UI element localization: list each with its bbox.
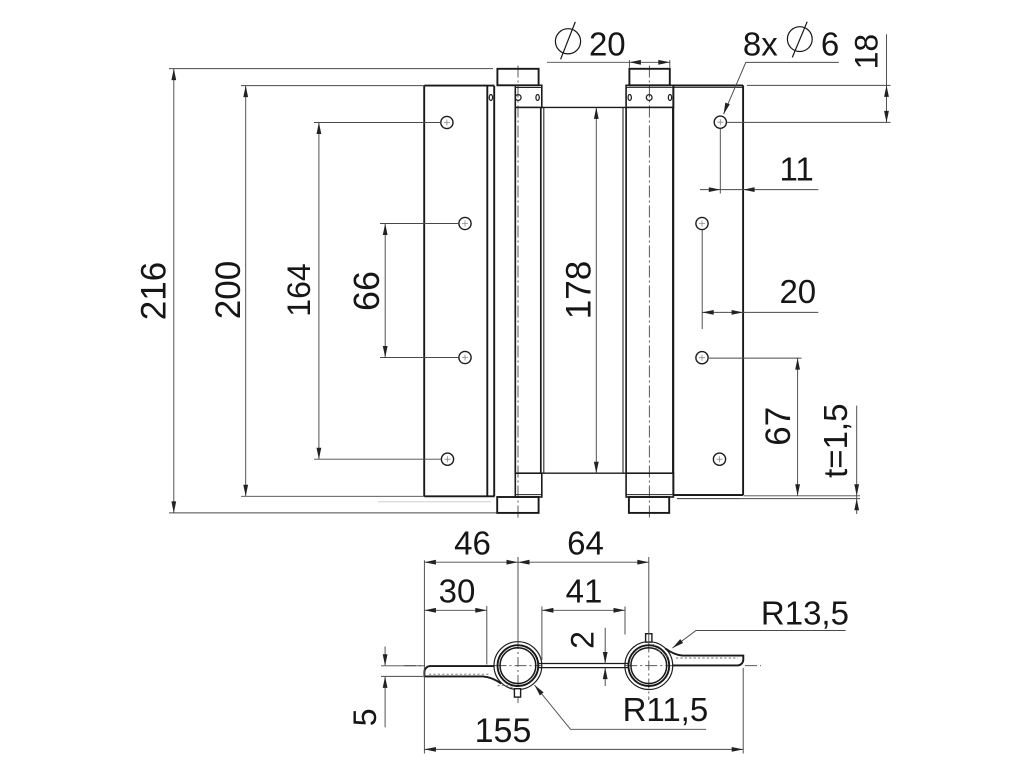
- dim 2 line: [604, 628, 606, 686]
- svg-text:41: 41: [566, 572, 603, 609]
- svg-text:200: 200: [209, 261, 248, 319]
- right band edge holes (ellipses): [628, 95, 631, 101]
- horizontal centerline section: [404, 665, 761, 667]
- dim 30 line: [424, 609, 486, 611]
- svg-text:8x: 8x: [743, 26, 778, 63]
- right barrel top cap: [629, 69, 669, 86]
- right plate hole 1: [714, 116, 726, 128]
- svg-text:18: 18: [849, 34, 885, 70]
- right barrel bottom band: [626, 473, 673, 497]
- dim 200 line: [245, 86, 247, 497]
- right wing serration: [676, 657, 738, 659]
- svg-text:155: 155: [475, 712, 532, 750]
- leaf strip hole (ellipse): [489, 95, 492, 101]
- label dia 20: [555, 22, 580, 59]
- extension right tube axis: [648, 557, 650, 643]
- leader R13,5: [673, 631, 846, 649]
- vertical centerline left tube: [517, 639, 519, 704]
- left plate hole 4: [441, 453, 453, 465]
- svg-text:46: 46: [454, 525, 491, 562]
- right barrel top band: [626, 85, 673, 107]
- right leaf plate: [673, 85, 743, 495]
- svg-text:64: 64: [567, 525, 604, 562]
- left clamp ring: [494, 642, 542, 690]
- left barrel body: [515, 107, 541, 473]
- centerline left barrel axis: [517, 66, 519, 519]
- dim 178 line: [595, 107, 597, 473]
- svg-text:66: 66: [346, 271, 387, 311]
- arrowheads front view: [171, 69, 176, 81]
- left band edge hole (ellipse): [536, 95, 539, 101]
- left wing serration: [429, 673, 489, 675]
- svg-text:R11,5: R11,5: [623, 691, 709, 728]
- right plate hole 2: [696, 217, 708, 229]
- right tube outer: [628, 645, 669, 686]
- extension left end: [423, 560, 425, 753]
- right barrel bottom cap: [629, 497, 669, 513]
- hole center cross marks right plate: [699, 119, 723, 462]
- dim 67 line: [797, 358, 799, 496]
- dim 18 line: [886, 34, 888, 122]
- extension left tube axis: [517, 557, 519, 639]
- left tube outer: [498, 645, 539, 686]
- right plate bottom edge strip (t=1,5): [677, 498, 739, 500]
- right clamp ring: [625, 642, 673, 690]
- left barrel top band: [515, 85, 542, 107]
- center web strip: [539, 663, 629, 665]
- svg-text:20: 20: [589, 25, 626, 62]
- right barrel body: [626, 107, 673, 473]
- leader R11,5: [535, 685, 707, 729]
- dim 164 line: [318, 123, 320, 460]
- dim dia20 line: [547, 61, 670, 63]
- left web edge: [543, 107, 545, 473]
- centerline right barrel axis: [648, 66, 650, 519]
- right web edge: [622, 107, 624, 473]
- dim 66 line: [384, 224, 386, 358]
- left plate hole 3: [459, 351, 471, 363]
- left barrel bottom band: [515, 473, 542, 497]
- left clamp screw tab: [514, 689, 520, 697]
- svg-text:t=1,5: t=1,5: [817, 404, 854, 478]
- right plate bottom lip line: [626, 494, 743, 496]
- dim 20 line: [702, 311, 818, 313]
- svg-text:67: 67: [759, 407, 798, 446]
- dim 46 / 64 line: [424, 561, 648, 563]
- left tube bore: [500, 648, 536, 684]
- right wing: [665, 649, 743, 666]
- right plate hole 4: [713, 453, 725, 465]
- hole center cross marks left plate: [444, 120, 468, 463]
- left barrel top cap: [497, 69, 538, 86]
- svg-text:5: 5: [347, 709, 383, 727]
- dim 5 line: [384, 647, 386, 728]
- right clamp screw tab: [646, 634, 652, 642]
- dim 155 line: [424, 748, 743, 750]
- right plate top lip line: [626, 86, 743, 88]
- left wing: [424, 666, 501, 684]
- right tube bore: [631, 648, 667, 684]
- leader 8x dia6: [724, 62, 839, 114]
- svg-text:178: 178: [560, 261, 599, 319]
- dim 41 line: [542, 609, 625, 611]
- left plate hole 1: [441, 116, 453, 128]
- svg-text:216: 216: [135, 262, 174, 320]
- svg-text:2: 2: [565, 631, 601, 649]
- left leaf plate: [424, 86, 494, 497]
- left barrel bottom cap: [497, 497, 538, 513]
- left band adjusting hole: [515, 95, 521, 101]
- web top edge between barrels: [542, 106, 626, 108]
- faint leaf edge line below left plate: [378, 501, 491, 503]
- svg-text:6: 6: [821, 25, 839, 62]
- right band adjusting hole: [646, 95, 652, 101]
- svg-text:164: 164: [281, 263, 317, 316]
- vertical centerline right tube: [648, 643, 650, 701]
- svg-text:R13,5: R13,5: [761, 595, 849, 632]
- svg-text:11: 11: [779, 151, 813, 188]
- right plate hole 3: [696, 352, 708, 364]
- arrowheads section view: [424, 560, 436, 565]
- dim 216 line: [173, 69, 175, 513]
- svg-text:20: 20: [779, 273, 816, 310]
- svg-text:30: 30: [439, 572, 476, 609]
- dim 11 line: [700, 189, 818, 191]
- web bottom edge between barrels: [542, 472, 626, 474]
- left plate hole 2: [459, 217, 471, 229]
- dim t=1,5 line: [856, 406, 858, 514]
